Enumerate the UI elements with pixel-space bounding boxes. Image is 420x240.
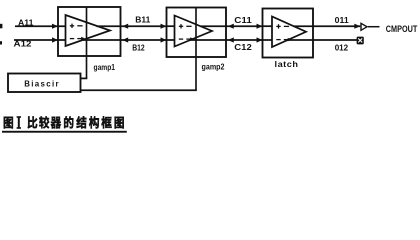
- svg-text:gamp1: gamp1: [94, 63, 116, 72]
- svg-text:Biascir: Biascir: [24, 80, 60, 89]
- dashed arrow bottom preamp gamp2: [186, 38, 191, 40]
- caption numeral 1: [17, 116, 21, 118]
- svg-text:gamp2: gamp2: [202, 62, 225, 71]
- dash mark top preamp gamp2: [186, 25, 191, 27]
- gamp1 output stub bottom: [83, 39, 121, 41]
- gamp2 input stub bottom: [167, 39, 175, 41]
- svg-text:B12: B12: [132, 44, 145, 53]
- svg-text:B11: B11: [135, 16, 150, 25]
- minus mark preamp gamp1: [70, 38, 74, 40]
- pad symbol on O12: [357, 37, 364, 45]
- latch output stub bottom: [288, 39, 314, 41]
- wire B12: [121, 39, 167, 41]
- minus mark latch: [276, 39, 280, 41]
- svg-text:CMPOUT: CMPOUT: [386, 24, 418, 34]
- wire C11: [226, 25, 263, 27]
- wire O11: [313, 25, 360, 27]
- latch block outline: [263, 9, 314, 58]
- preamp gamp2 block outline: [167, 8, 227, 58]
- gamp2 input stub top: [167, 25, 175, 27]
- wire O12: [313, 39, 357, 41]
- svg-text:A12: A12: [14, 39, 32, 49]
- caption character 框: [101, 116, 111, 128]
- op-amp triangle of preamp gamp2: [175, 16, 213, 47]
- latch input stub top: [263, 25, 273, 27]
- wire B11: [121, 25, 167, 27]
- preamp gamp1 block outline: [58, 7, 121, 56]
- wire bias to gamp2: [81, 89, 197, 91]
- left page-edge artifact top: [0, 24, 2, 29]
- minus mark preamp gamp2: [179, 38, 183, 40]
- wire buffer to CMPOUT: [368, 26, 380, 28]
- preamp gamp2 internal divider: [195, 8, 197, 91]
- dashed arrow bottom latch: [284, 39, 289, 41]
- svg-text:011: 011: [335, 16, 349, 25]
- caption character 器: [51, 117, 61, 129]
- caption character 比: [28, 116, 38, 128]
- caption character 结: [76, 116, 86, 128]
- dash mark top latch: [284, 25, 289, 27]
- op-amp triangle of latch: [272, 17, 306, 48]
- caption character 较: [39, 116, 49, 128]
- wire bias to gamp1: [81, 77, 88, 79]
- svg-text:C11: C11: [234, 16, 252, 25]
- caption character 的: [64, 116, 73, 128]
- latch output stub top: [294, 25, 314, 27]
- caption character 图 (last): [115, 117, 124, 129]
- caption figure number 图: [4, 117, 13, 129]
- dashed arrow bottom preamp gamp1: [77, 38, 82, 40]
- caption underline: [2, 131, 127, 133]
- plus mark latch: [276, 25, 280, 27]
- gamp1 output stub top: [97, 25, 121, 27]
- preamp gamp1 internal divider: [86, 7, 88, 79]
- latch input stub bottom: [263, 39, 273, 41]
- dash mark top preamp gamp1: [77, 25, 82, 27]
- bias circuit box Biascir: [8, 74, 81, 93]
- caption character 构: [89, 116, 99, 128]
- svg-text:012: 012: [335, 43, 349, 52]
- output buffer triangle: [361, 23, 367, 30]
- wire C12: [226, 39, 263, 41]
- gamp2 output stub bottom: [190, 39, 226, 41]
- gamp2 output stub top: [201, 25, 227, 27]
- op-amp triangle of preamp gamp1: [66, 15, 111, 46]
- svg-text:latch: latch: [275, 59, 299, 69]
- left page-edge artifact bottom: [0, 41, 2, 44]
- wire input AI2: [14, 39, 66, 41]
- plus mark preamp gamp2: [179, 25, 183, 27]
- svg-text:A11: A11: [18, 17, 34, 27]
- plus mark preamp gamp1: [70, 25, 74, 27]
- wire input AI1: [15, 25, 66, 27]
- svg-text:C12: C12: [234, 43, 252, 52]
